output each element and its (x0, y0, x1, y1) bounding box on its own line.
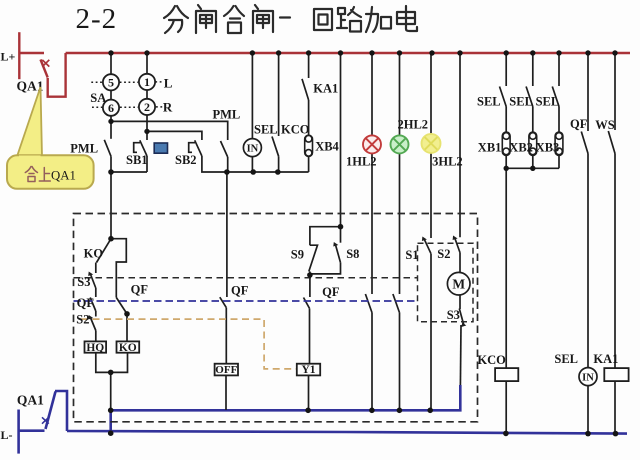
svg-text:QA1: QA1 (51, 168, 76, 182)
svg-text:KA1: KA1 (313, 82, 338, 96)
svg-text:QF: QF (77, 296, 95, 310)
svg-text:XB4: XB4 (315, 140, 339, 154)
svg-text:5: 5 (108, 76, 114, 90)
svg-text:SEL: SEL (254, 123, 278, 137)
svg-text:Y1: Y1 (301, 364, 315, 376)
svg-text:QF: QF (131, 283, 149, 297)
svg-text:XB3: XB3 (536, 141, 560, 155)
svg-text:M: M (452, 277, 465, 292)
svg-text:3HL2: 3HL2 (432, 155, 463, 169)
svg-text:L-: L- (1, 428, 13, 442)
svg-text:SEL: SEL (477, 95, 501, 109)
svg-text:1: 1 (144, 75, 150, 89)
svg-text:SA: SA (90, 91, 106, 105)
svg-text:KO: KO (119, 342, 137, 354)
svg-text:XB1: XB1 (478, 141, 502, 155)
svg-text:6: 6 (108, 101, 114, 115)
svg-text:S8: S8 (346, 247, 359, 261)
svg-text:QF: QF (322, 285, 340, 299)
svg-text:SEL: SEL (509, 95, 533, 109)
svg-text:L+: L+ (1, 50, 16, 64)
svg-text:SEL: SEL (554, 352, 578, 366)
svg-text:S3: S3 (77, 275, 90, 289)
svg-text:IN: IN (582, 372, 594, 383)
svg-text:KO: KO (84, 246, 104, 260)
svg-text:PML: PML (213, 108, 241, 122)
svg-text:IN: IN (247, 143, 259, 154)
svg-text:HQ: HQ (86, 342, 104, 354)
svg-text:PML: PML (70, 142, 98, 156)
svg-text:KCO: KCO (477, 353, 506, 367)
svg-text:XB2: XB2 (509, 141, 533, 155)
svg-text:S9: S9 (291, 248, 304, 262)
svg-text:KCO: KCO (281, 123, 310, 137)
svg-text:OFF: OFF (215, 364, 237, 376)
svg-text:2: 2 (144, 100, 150, 114)
svg-text:S2: S2 (437, 247, 450, 261)
svg-text:S1: S1 (405, 248, 418, 262)
svg-text:KA1: KA1 (593, 352, 618, 366)
svg-text:WS: WS (595, 118, 615, 132)
svg-text:L: L (164, 75, 173, 90)
svg-text:QF: QF (570, 117, 588, 131)
svg-text:2-2: 2-2 (76, 3, 118, 35)
svg-text:SB2: SB2 (175, 153, 197, 167)
svg-text:S3: S3 (447, 308, 460, 322)
svg-text:S2: S2 (76, 313, 89, 327)
svg-text:1HL2: 1HL2 (346, 155, 377, 169)
svg-text:SEL: SEL (536, 95, 560, 109)
svg-text:QA1: QA1 (17, 393, 44, 408)
svg-text:2HL2: 2HL2 (398, 117, 429, 131)
svg-text:QF: QF (231, 284, 249, 298)
svg-text:SB1: SB1 (126, 153, 148, 167)
svg-text:R: R (163, 100, 173, 115)
